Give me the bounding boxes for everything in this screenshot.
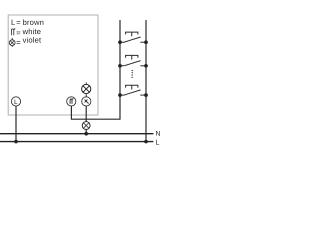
terminal L <box>11 97 20 106</box>
terminal violet (lamp output) <box>82 97 91 106</box>
terminal white (push-button input) <box>67 97 76 106</box>
junction dots S1 <box>118 40 148 44</box>
junction dot: right bus on L line <box>144 140 148 144</box>
junction dot: lamp wire on N line <box>84 132 88 136</box>
L line <box>0 141 153 143</box>
junction dot: L wire on L line <box>14 140 18 144</box>
legend line 1: L = brown <box>12 19 44 25</box>
label L <box>156 140 159 145</box>
push-button S2 actuator <box>126 55 138 59</box>
legend line 2 text: = white <box>17 29 41 35</box>
lamp (load) <box>82 122 90 130</box>
legend line 3 symbol: lamp glyph <box>9 38 15 47</box>
push-button S1 actuator <box>126 32 138 36</box>
wire: violet terminal down to lamp <box>85 106 87 122</box>
wire: lamp down to N line <box>85 129 87 133</box>
label N <box>156 131 160 136</box>
legend line 2 symbol: push-button glyph <box>11 29 15 36</box>
ellipsis dots (further push-buttons) <box>131 70 133 78</box>
N line <box>0 133 153 135</box>
legend line 3 text: = violet <box>17 37 41 44</box>
push-button S3 actuator <box>126 85 138 89</box>
junction dots S3 <box>118 93 148 97</box>
device box <box>8 15 98 115</box>
push-button S1 contact <box>120 37 146 42</box>
junction dots S2 <box>118 64 148 68</box>
wire: terminal L down to L line <box>15 106 17 142</box>
printed lamp symbol above violet terminal <box>82 82 91 97</box>
wire: white terminal to push-button bus (left bus) <box>71 20 120 119</box>
right bus wire (L feed to push-buttons) <box>145 20 147 142</box>
push-button S3 contact <box>120 90 146 95</box>
push-button S2 contact <box>120 61 146 66</box>
